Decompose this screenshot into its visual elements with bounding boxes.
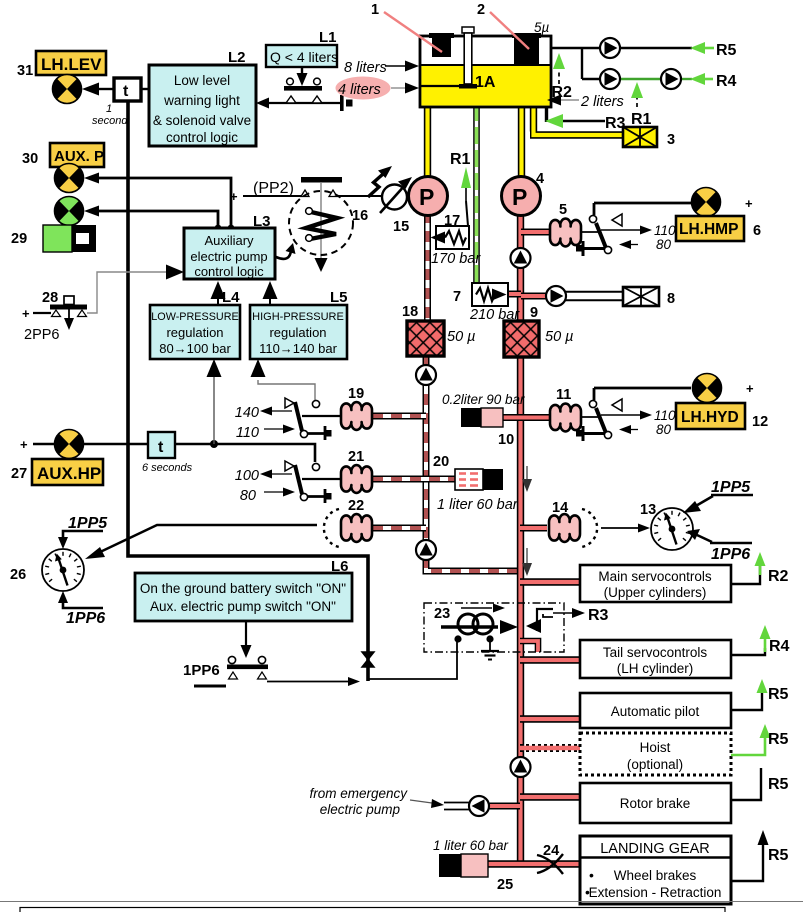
svg-text:31: 31	[17, 63, 33, 79]
svg-text:R5: R5	[768, 731, 789, 748]
1PP5 label to gauge 26	[58, 515, 108, 549]
svg-text:R5: R5	[768, 686, 789, 703]
svg-text:HIGH-PRESSURE: HIGH-PRESSURE	[252, 311, 344, 323]
svg-text:On the ground battery switch ": On the ground battery switch "ON"	[140, 581, 346, 596]
svg-text:Hoist: Hoist	[640, 740, 671, 755]
solenoid shutoff valve 3	[623, 127, 675, 148]
box Main servocontrols	[580, 565, 731, 602]
electric motor symbol of pump 15	[368, 166, 412, 213]
tank level sensor tube	[459, 27, 477, 89]
wire: gray wire from switch 28 to L3 with arrow	[87, 265, 184, 314]
svg-text:•: •	[589, 867, 594, 883]
svg-text:1: 1	[371, 2, 379, 18]
svg-text:Aux. electric pump switch "ON": Aux. electric pump switch "ON"	[150, 599, 336, 614]
R2 arrow from Main servocontrols	[731, 552, 789, 585]
svg-text:110→140 bar: 110→140 bar	[259, 341, 337, 356]
pipe: branch to Automatic pilot	[520, 715, 580, 722]
svg-text:LANDING GEAR: LANDING GEAR	[600, 841, 710, 857]
svg-text:L3: L3	[253, 213, 271, 230]
pipe: branch to bellows 5	[521, 229, 550, 236]
wire: lamp 6 feed line	[594, 196, 753, 215]
check valve on R5 line	[600, 38, 620, 58]
gray flow arrow upper on main line	[522, 466, 532, 492]
svg-text:regulation: regulation	[269, 325, 326, 340]
wire: bellows 14 sense line to gauge 13	[601, 524, 650, 533]
svg-text:& solenoid valve: & solenoid valve	[153, 113, 251, 128]
pressure switch for LH.HYD with 110/80	[576, 399, 676, 441]
svg-text:50 µ: 50 µ	[447, 329, 476, 345]
svg-text:control logic: control logic	[166, 130, 238, 145]
bellows 21	[341, 449, 372, 493]
box Rotor brake	[580, 783, 731, 823]
bellows 14 with dotted coupling	[549, 500, 597, 547]
pressure switch 140/110	[235, 398, 341, 441]
tank filter cap 2 (5 micron)	[512, 33, 541, 65]
svg-text:R4: R4	[716, 73, 737, 90]
label 2 with pink leader	[477, 2, 529, 49]
svg-text:R1: R1	[631, 111, 652, 128]
gauge 13	[640, 502, 693, 550]
relief valve 7 (210 bar)	[453, 283, 520, 323]
svg-text:19: 19	[348, 386, 364, 402]
svg-text:12: 12	[752, 414, 768, 430]
wire: AUX.HP line with timer 6 seconds	[33, 440, 315, 462]
svg-text:t: t	[158, 439, 164, 456]
svg-text:P: P	[419, 184, 434, 210]
switch 28 (2PP6)	[22, 290, 87, 343]
pipe: branch to relief valve 7	[508, 291, 521, 298]
warning lamp 6	[692, 188, 721, 217]
flow sensor 23 in dash-dot box	[424, 603, 564, 660]
warning lamp 27	[20, 430, 84, 459]
svg-text:1A: 1A	[475, 74, 496, 91]
wire: bellows 5 to pressure switch	[581, 231, 601, 233]
indicator 29 (green/black flag)	[11, 225, 96, 252]
svg-text:8: 8	[667, 291, 675, 307]
svg-text:80→100 bar: 80→100 bar	[159, 341, 231, 356]
svg-text:control logic: control logic	[194, 264, 264, 279]
svg-text:+: +	[22, 306, 30, 321]
R2 return arrow into tank line	[552, 53, 573, 101]
check valve on main line above rotor brake branch	[511, 757, 531, 777]
svg-text:25: 25	[497, 877, 513, 893]
svg-text:electric pump: electric pump	[190, 249, 267, 264]
pipe: branch to Rotor brake	[520, 793, 580, 800]
shuttle valve on vertical bus	[362, 652, 374, 667]
svg-text:9: 9	[530, 305, 538, 321]
check valve and line to valve 8	[546, 286, 624, 306]
label box AUX. P	[22, 143, 104, 167]
label box LH.HMP	[676, 216, 761, 241]
wire: sensor 23 to 1PP6 line	[368, 639, 457, 679]
box Automatic pilot	[580, 693, 731, 728]
R5 arrow from LANDING GEAR	[731, 830, 789, 881]
restrictor 24	[537, 843, 563, 874]
check valve on main line below pump 4	[511, 248, 531, 268]
wire: lamp 29 line from L3	[84, 206, 221, 232]
svg-text:6: 6	[753, 223, 761, 239]
svg-text:80: 80	[240, 488, 256, 504]
level switch under L1	[284, 67, 322, 103]
bellows 11	[550, 387, 581, 431]
svg-text:0.2liter 90 bar: 0.2liter 90 bar	[442, 392, 525, 407]
warning lamp 12	[693, 374, 722, 403]
arrow from L6 down to 1PP6 switch	[241, 621, 252, 658]
pump 4	[502, 171, 545, 216]
svg-text:R3: R3	[588, 607, 609, 624]
footer separator line	[0, 901, 803, 903]
svg-text:5µ: 5µ	[534, 20, 550, 35]
svg-text:20: 20	[433, 454, 449, 470]
wire: line from solenoid 16 to motor of pump 15	[337, 195, 382, 197]
curved arrow L3 to solenoid 16	[276, 243, 296, 259]
svg-text:L6: L6	[331, 558, 349, 575]
svg-text:(PP2): (PP2)	[253, 180, 294, 197]
accumulator 10 (0.2 liter 90 bar)	[442, 392, 525, 448]
R3 return line with green arrow	[545, 114, 626, 132]
svg-text:+: +	[745, 196, 753, 211]
svg-text:4 liters: 4 liters	[338, 82, 381, 98]
svg-text:t: t	[123, 83, 129, 100]
svg-text:+: +	[746, 381, 754, 396]
svg-text:LH.HMP: LH.HMP	[679, 221, 738, 238]
check valve on left striped line below filter 18	[416, 365, 436, 385]
1PP6 label to gauge 13	[687, 529, 752, 563]
pressure switch for LH.HMP with 110/80	[576, 214, 676, 256]
label 4 liters highlighted with arrow	[336, 77, 420, 100]
R5 return line into tank	[551, 42, 737, 59]
svg-text:22: 22	[348, 498, 364, 514]
svg-text:Low level: Low level	[174, 73, 230, 88]
wire: lamp 12 feed line	[594, 381, 754, 400]
pipe: striped line bellows 21 through vertical to accumulator 20	[372, 476, 455, 483]
relief valve 17 (170 bar)	[431, 201, 482, 267]
svg-text:140: 140	[235, 405, 259, 421]
pipe: striped pressure line pump 15 down to filter 18, check valve, down left side	[426, 212, 518, 571]
R5 arrow from Hoist	[731, 724, 789, 755]
logic box L1 (Q < 4 liters)	[266, 29, 338, 67]
wire: L2 to timer t and t to lamp 31	[82, 83, 150, 96]
svg-text:15: 15	[393, 219, 409, 235]
svg-text:23: 23	[434, 606, 450, 622]
logic box L5 HIGH-PRESSURE	[250, 289, 348, 359]
svg-text:(Upper cylinders): (Upper cylinders)	[604, 585, 707, 600]
svg-text:1 liter 60 bar: 1 liter 60 bar	[433, 838, 509, 853]
svg-text:26: 26	[10, 567, 26, 583]
1PP6 label to gauge 26	[58, 591, 105, 627]
svg-text:+: +	[20, 437, 28, 452]
svg-text:L1: L1	[319, 29, 337, 46]
pipe: green return R1 from relief valve 7 to tank	[473, 104, 480, 284]
pipe: landing gear manifold line with accumulator 25	[488, 860, 580, 867]
svg-text:18: 18	[402, 304, 418, 320]
svg-text:Wheel brakes: Wheel brakes	[614, 868, 697, 883]
check valve on R4 line left	[600, 69, 620, 89]
svg-text:+: +	[230, 189, 238, 204]
box Tail servocontrols	[580, 640, 731, 678]
bellows 19	[341, 386, 372, 430]
svg-text:1PP6: 1PP6	[711, 546, 750, 563]
svg-text:(optional): (optional)	[627, 757, 683, 772]
reservoir tank 1A	[420, 36, 551, 107]
svg-text:(LH cylinder): (LH cylinder)	[617, 661, 694, 676]
svg-text:4: 4	[536, 171, 544, 187]
logic box L6	[135, 558, 352, 621]
pipe: yellow suction tank to pump 15	[424, 105, 431, 178]
check valve on R4 line right	[661, 69, 681, 89]
svg-text:17: 17	[444, 213, 460, 229]
pipe: branch to bellows 14	[520, 525, 547, 532]
R1 arrow from relief valve 17	[450, 151, 471, 201]
svg-text:regulation: regulation	[166, 325, 223, 340]
svg-text:3: 3	[667, 132, 675, 148]
label box LH.LEV	[17, 51, 106, 79]
gauge 26	[10, 549, 84, 591]
svg-text:Main servocontrols: Main servocontrols	[598, 569, 712, 584]
pipe: branch to check valve 8 line	[521, 293, 547, 300]
svg-text:2 liters: 2 liters	[580, 94, 624, 110]
svg-text:10: 10	[498, 432, 514, 448]
1PP5 label to gauge 13	[683, 479, 753, 513]
svg-text:R2: R2	[552, 84, 573, 101]
solenoid valve to R3	[526, 607, 609, 633]
svg-text:LH.LEV: LH.LEV	[41, 55, 102, 74]
label box LH.HYD	[676, 403, 768, 430]
box LANDING GEAR / wheel brakes	[580, 836, 731, 904]
R5 line from Rotor brake	[731, 768, 789, 800]
svg-text:21: 21	[348, 449, 364, 465]
svg-text:1: 1	[106, 103, 112, 115]
svg-text:2: 2	[477, 2, 485, 18]
pipe: black return stub at tank bottom right	[545, 104, 548, 122]
svg-text:100: 100	[235, 468, 259, 484]
pipe: branch accumulator 10 and bellows 11	[503, 414, 550, 421]
solenoid 16 in dashed circle	[289, 183, 368, 272]
wire: arrow up from L5 box into L3	[263, 281, 278, 305]
R1 return arrow into R4 line	[631, 82, 652, 128]
svg-text:Tail servocontrols: Tail servocontrols	[603, 645, 708, 660]
R4 arrow from Tail servocontrols	[731, 625, 790, 655]
svg-text:LOW-PRESSURE: LOW-PRESSURE	[151, 311, 238, 323]
svg-text:warning light: warning light	[163, 93, 240, 108]
svg-text:110: 110	[236, 425, 259, 441]
wire: arrow up from L4 box into L3	[211, 281, 226, 305]
pipe: stub to solenoid valve near 23	[520, 641, 538, 652]
svg-text:R5: R5	[768, 776, 789, 793]
svg-text:L5: L5	[330, 289, 348, 306]
box Hoist (optional) dotted	[580, 733, 731, 775]
pipe: yellow suction tank to pump 4	[518, 105, 525, 178]
svg-text:AUX. P: AUX. P	[54, 148, 104, 165]
svg-text:LH.HYD: LH.HYD	[681, 409, 739, 426]
svg-text:29: 29	[11, 231, 27, 247]
svg-text:R1: R1	[450, 151, 471, 168]
svg-text:7: 7	[453, 289, 461, 305]
wire: bellows 11 to pressure switch	[581, 416, 601, 418]
R5 arrow from Automatic pilot	[731, 679, 789, 710]
svg-text:1 liter 60 bar: 1 liter 60 bar	[437, 497, 519, 513]
bellows 5	[550, 202, 581, 246]
pipe: branch to Main servocontrols	[520, 578, 580, 585]
pipe: emergency pump line red part	[487, 803, 520, 810]
R4 return line with two check valves	[582, 73, 737, 90]
pipe: main pressure line from pump 4 down to landing gear manifold	[517, 212, 524, 864]
svg-text:1PP6: 1PP6	[66, 610, 105, 627]
pressure switch 100/80	[235, 461, 341, 504]
pipe: striped line bellows 19 to vertical	[372, 413, 426, 420]
pipe: dotted branch to Hoist	[520, 744, 580, 752]
svg-text:30: 30	[22, 151, 38, 167]
(PP2) busbar	[253, 177, 342, 197]
svg-text:5: 5	[559, 202, 567, 218]
filter 9 (50 micron)	[504, 305, 574, 357]
pipe: branch to Tail servocontrols	[520, 656, 580, 663]
svg-text:second: second	[92, 115, 128, 127]
svg-text:L2: L2	[228, 49, 246, 66]
shutoff valve 8	[623, 287, 675, 307]
svg-text:electric pump: electric pump	[320, 802, 401, 817]
svg-text:14: 14	[552, 500, 568, 516]
warning lamp 31	[53, 75, 82, 104]
timer t (1 second)	[92, 78, 141, 127]
svg-text:16: 16	[352, 208, 368, 224]
label 1 with pink leader	[371, 2, 442, 52]
logic box L4 LOW-PRESSURE	[150, 289, 240, 359]
pump 15	[393, 177, 448, 236]
svg-text:Auxiliary: Auxiliary	[204, 233, 254, 248]
label box AUX.HP	[11, 459, 103, 485]
svg-text:13: 13	[640, 502, 656, 518]
svg-text:11: 11	[556, 387, 571, 403]
warning lamp 29 green	[55, 197, 84, 226]
logic box L2	[149, 49, 256, 146]
svg-text:R2: R2	[768, 568, 789, 585]
svg-text:1PP5: 1PP5	[68, 515, 108, 532]
wire: (PP2) + line to solenoid 16	[230, 189, 302, 204]
pipe: striped line bellows 22 stub	[372, 525, 426, 532]
logic box L3	[184, 213, 275, 279]
svg-text:1PP6: 1PP6	[183, 662, 220, 679]
svg-text:R5: R5	[716, 42, 737, 59]
svg-text:50 µ: 50 µ	[545, 329, 574, 345]
wire: 1PP6 switch output to shuttle line	[267, 677, 360, 686]
pipe: yellow return from valve 3 to tank	[530, 104, 623, 135]
label 8 liters with arrow	[344, 60, 419, 76]
accumulator 25 (1 liter 60 bar)	[433, 838, 513, 893]
svg-text:170 bar: 170 bar	[431, 251, 481, 267]
accumulator 20 (1 liter 60 bar)	[433, 454, 519, 513]
svg-text:AUX.HP: AUX.HP	[37, 464, 101, 483]
svg-text:28: 28	[42, 290, 58, 306]
svg-text:6 seconds: 6 seconds	[142, 462, 193, 474]
filter 18 (50 micron)	[402, 304, 476, 356]
switch 1PP6	[183, 656, 268, 686]
wire: gray wire from switch L5 to pressure switch 140-110	[251, 359, 316, 400]
svg-text:P: P	[512, 184, 527, 210]
wire: bellows 22 sense line to gauge 26	[85, 525, 317, 559]
emergency electric pump line	[309, 786, 489, 817]
svg-text:24: 24	[543, 843, 559, 859]
gray flow arrow lower on main line	[522, 548, 532, 576]
svg-text:8 liters: 8 liters	[344, 60, 387, 76]
wire: lamp 30 line from L3	[84, 173, 234, 232]
footer table top edge	[20, 908, 725, 912]
check valve on left striped line lower	[416, 540, 436, 560]
svg-text:Rotor brake: Rotor brake	[620, 796, 691, 811]
node: drop from R5 line to R4 line	[581, 48, 583, 79]
svg-text:L4: L4	[222, 289, 240, 306]
svg-text:from emergency: from emergency	[309, 786, 408, 801]
wire: arrow shaft from junction up into L4	[207, 359, 222, 444]
svg-text:Extension - Retraction: Extension - Retraction	[589, 885, 722, 900]
bellows 22 with dotted coupling	[324, 498, 372, 547]
label 2 liters with arrow	[547, 94, 624, 110]
svg-text:2PP6: 2PP6	[24, 327, 59, 343]
svg-text:Automatic pilot: Automatic pilot	[611, 704, 700, 719]
svg-text:R5: R5	[768, 847, 789, 864]
timer t (6 seconds)	[142, 432, 193, 474]
svg-text:27: 27	[11, 466, 27, 482]
svg-text:1PP5: 1PP5	[711, 479, 751, 496]
svg-text:Q < 4 liters: Q < 4 liters	[270, 49, 338, 65]
svg-text:R4: R4	[769, 638, 790, 655]
warning lamp 30	[55, 164, 84, 193]
tank filler cap 1	[429, 33, 454, 57]
wire: thick black bus from timer t down left side and across to 1PP6 valve line	[128, 101, 368, 681]
wire: level switch L1 to L2 with battery symbol	[256, 95, 353, 111]
